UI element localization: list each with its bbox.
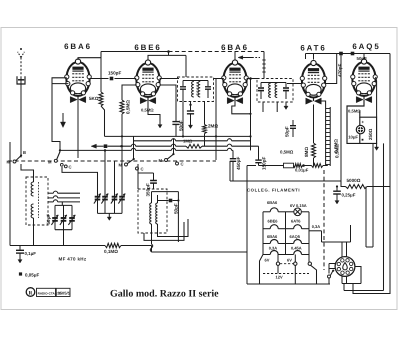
capacitor 0,25uF electrolytic bbox=[336, 187, 338, 191]
wire tube1 aux pin left bbox=[52, 83, 68, 85]
filament 6AT6 bbox=[294, 225, 302, 229]
ground trimmer group 2 bbox=[108, 213, 110, 218]
svg-text:6BA6: 6BA6 bbox=[221, 43, 249, 52]
trimmer 2b bbox=[104, 192, 106, 197]
top line dashed part bbox=[169, 51, 265, 53]
wire tube3 cathode bbox=[232, 101, 251, 114]
wire tube1 grid left bbox=[52, 78, 67, 151]
wires osc coil top bbox=[151, 192, 153, 203]
terminal third bbox=[308, 255, 310, 263]
switch 2 bbox=[54, 159, 57, 162]
oscillator coil box bbox=[138, 189, 167, 233]
wire bottom bus left bbox=[10, 245, 105, 247]
capacitor 50pF tube4 bbox=[292, 120, 294, 125]
flex link bbox=[150, 244, 153, 252]
svg-text:450pF: 450pF bbox=[236, 157, 241, 170]
trimmer 2a bbox=[97, 194, 99, 197]
wire socket top loop bbox=[322, 241, 351, 243]
resistor 5K bbox=[100, 52, 102, 93]
arrow into coil bbox=[60, 122, 65, 128]
svg-text:6BA6: 6BA6 bbox=[267, 200, 278, 205]
antenna coil windings bbox=[31, 182, 33, 196]
svg-text:6AT6: 6AT6 bbox=[300, 44, 326, 53]
wire line T bbox=[105, 135, 251, 137]
speaker and output section bbox=[347, 100, 377, 143]
trimmer group 1 top bar bbox=[55, 204, 72, 206]
svg-text:2MΩ: 2MΩ bbox=[208, 124, 218, 129]
IFT1 windings bbox=[192, 82, 194, 98]
IFT2 riser with ticks bbox=[263, 52, 265, 79]
svg-text:0,1MΩ: 0,1MΩ bbox=[104, 249, 118, 254]
svg-text:6AQ5: 6AQ5 bbox=[352, 42, 380, 51]
tube 6BA6 bbox=[221, 43, 249, 104]
wire down to IFT1 bbox=[185, 55, 187, 77]
svg-text:0,3A: 0,3A bbox=[312, 224, 321, 229]
IF transformer 1 box bbox=[178, 77, 214, 102]
wire coil bottom bbox=[33, 218, 35, 246]
volume potentiometer 0,5M ladder bbox=[325, 107, 327, 166]
filament row wires bbox=[263, 243, 270, 245]
wire tube5 top bbox=[363, 54, 365, 59]
switch 1 antenna bbox=[13, 160, 16, 163]
capacitor 470pF vertical bbox=[325, 54, 337, 84]
capacitor 50pF b bbox=[351, 52, 355, 56]
switch linkage dashed bbox=[8, 160, 216, 162]
wire AF chain bbox=[247, 165, 256, 167]
svg-text:0,25μF: 0,25μF bbox=[342, 193, 356, 198]
svg-text:0,3A: 0,3A bbox=[269, 246, 278, 251]
wire switch2 C to trimmers bbox=[62, 167, 98, 194]
resistor 0,5M osc grid bbox=[122, 85, 137, 100]
dial lamp 6V 0,15A bbox=[294, 208, 302, 216]
capacitor 150pF coupling bbox=[90, 78, 109, 80]
svg-text:470pF: 470pF bbox=[338, 64, 343, 77]
capacitor 450pF bbox=[232, 150, 234, 158]
filament tap row bbox=[270, 251, 278, 255]
wire vertical to switch4 bbox=[173, 139, 175, 155]
wire tube1 cathode down bbox=[77, 100, 79, 159]
socket left stubs bbox=[329, 263, 336, 265]
ground tube2 cathode bbox=[148, 101, 160, 122]
mains switch bbox=[328, 275, 331, 278]
speaker magnet circle bbox=[356, 125, 364, 133]
svg-text:6V: 6V bbox=[265, 258, 270, 263]
tube 6AT6 bbox=[300, 44, 327, 105]
svg-text:M: M bbox=[48, 160, 52, 165]
IFT2 leads down bbox=[262, 102, 264, 112]
wire IFT2 out to tube4 grid bbox=[287, 83, 303, 85]
wire switch3 to osc box bbox=[137, 164, 139, 189]
svg-text:250Ω: 250Ω bbox=[368, 128, 373, 140]
filament 6BA6 b bbox=[270, 240, 278, 244]
wires osc coil bottom bbox=[151, 224, 153, 244]
capacitor 50pF a bbox=[339, 52, 343, 56]
filament row wires bbox=[263, 254, 270, 256]
trimmer group 2 bottom bar bbox=[98, 212, 123, 214]
IFT2 cap right bbox=[285, 83, 287, 88]
ground 0,1uF bbox=[19, 256, 21, 261]
resistor 8M vertical bbox=[313, 105, 315, 144]
svg-text:6BA6: 6BA6 bbox=[267, 234, 278, 239]
capacitor 50pF IF with ground bbox=[190, 101, 192, 111]
IFT1 cap right bbox=[207, 81, 209, 87]
IFT2 windings bbox=[269, 83, 271, 98]
capacitor 50pF osc pad bbox=[169, 199, 173, 203]
wire long AF bottom bbox=[230, 180, 341, 182]
svg-text:50pF: 50pF bbox=[173, 203, 178, 214]
wire coil top bbox=[21, 164, 34, 182]
antenna coil box bbox=[26, 177, 48, 225]
svg-text:3505/S: 3505/S bbox=[58, 291, 71, 296]
resistor zigzag a bbox=[294, 164, 303, 168]
wire junction to switch row bbox=[215, 79, 217, 161]
svg-text:6BA6: 6BA6 bbox=[64, 42, 92, 51]
svg-text:0,5MΩ: 0,5MΩ bbox=[141, 108, 154, 113]
antenna bbox=[20, 48, 22, 50]
capacitor 0,1uF bbox=[19, 246, 21, 250]
speaker inner box left edge bbox=[359, 117, 361, 143]
filament feed wires bbox=[246, 166, 248, 285]
resistor 1M in AVC line bbox=[186, 144, 202, 148]
tube 6BE6 bbox=[134, 43, 161, 104]
ground 0,25uF bbox=[336, 197, 338, 202]
filament 6BE6 bbox=[270, 225, 278, 229]
switch linkage vertical bbox=[323, 170, 325, 270]
wire tube5 side pin down bbox=[376, 77, 377, 117]
svg-text:COLLEG. FILAMENTI: COLLEG. FILAMENTI bbox=[247, 188, 300, 193]
trimmer 1c bbox=[71, 205, 73, 218]
svg-text:6V 0,15A: 6V 0,15A bbox=[290, 203, 307, 208]
IF transformer 2 box bbox=[257, 79, 293, 103]
wire bottom bus right bbox=[152, 251, 248, 253]
ground IFT2 bbox=[285, 103, 287, 108]
svg-text:5000Ω: 5000Ω bbox=[347, 178, 361, 183]
oscillator windings bbox=[150, 203, 152, 224]
wire vertical to switch3 bbox=[133, 136, 135, 158]
label 12V bbox=[263, 273, 309, 275]
svg-text:0,5MΩ: 0,5MΩ bbox=[335, 144, 340, 158]
wire IFT1 to tube3 bbox=[214, 78, 224, 80]
svg-text:C: C bbox=[181, 162, 184, 167]
svg-text:150pF: 150pF bbox=[262, 157, 267, 170]
filament row wires bbox=[263, 211, 270, 213]
IFT1 leads down bbox=[182, 98, 184, 136]
svg-text:50pF: 50pF bbox=[46, 214, 51, 225]
svg-text:MF 470 kHz: MF 470 kHz bbox=[59, 257, 87, 262]
wire junction down bbox=[250, 79, 252, 151]
logo badge bbox=[26, 288, 35, 297]
capacitor 0,05uF bbox=[19, 272, 22, 275]
trimmer group 1 bottom bar bbox=[55, 229, 72, 231]
svg-text:C: C bbox=[141, 167, 144, 172]
svg-text:6V: 6V bbox=[287, 258, 292, 263]
trimmer 2d bbox=[121, 192, 123, 197]
switch 4 bbox=[165, 159, 168, 162]
resistor 0,1M bbox=[105, 243, 121, 247]
wire right rail inner bbox=[383, 143, 385, 290]
svg-text:50pF: 50pF bbox=[285, 126, 290, 137]
wire speaker leads bbox=[372, 143, 374, 247]
svg-text:10μF: 10μF bbox=[348, 134, 358, 139]
vibrator socket bbox=[335, 257, 355, 277]
svg-text:150pF: 150pF bbox=[108, 71, 121, 76]
top line solid part bbox=[101, 51, 169, 53]
tube 6BA6 bbox=[64, 42, 92, 103]
wire tube1 top to top line bbox=[78, 52, 101, 61]
svg-text:+: + bbox=[362, 120, 365, 125]
wire tube3 plate to IFT2 bbox=[247, 78, 257, 80]
svg-text:0,05μF: 0,05μF bbox=[25, 273, 40, 278]
AVC line with arrow bbox=[91, 144, 96, 148]
svg-text:0,01μF: 0,01μF bbox=[295, 168, 309, 173]
svg-text:M: M bbox=[159, 158, 163, 163]
svg-text:R: R bbox=[29, 290, 33, 296]
svg-text:50pF: 50pF bbox=[357, 56, 368, 61]
filament row wires bbox=[263, 228, 270, 230]
wire coupling cap down bbox=[340, 55, 342, 181]
trimmer 2c bbox=[114, 192, 116, 197]
wire left rail bbox=[9, 142, 11, 246]
wire line W bbox=[60, 149, 131, 151]
svg-text:B: B bbox=[23, 150, 26, 155]
svg-text:6BE6: 6BE6 bbox=[268, 219, 279, 224]
svg-text:0,5MΩ: 0,5MΩ bbox=[280, 150, 294, 155]
filament rails bbox=[262, 212, 264, 255]
capacitor 50pF osc bbox=[160, 85, 176, 121]
svg-text:6AQ5: 6AQ5 bbox=[290, 234, 301, 239]
svg-text:8MΩ: 8MΩ bbox=[304, 147, 309, 157]
svg-text:12V: 12V bbox=[276, 275, 283, 280]
svg-text:6BE6: 6BE6 bbox=[134, 43, 161, 52]
resistor 2M vertical bbox=[204, 101, 206, 125]
svg-text:0,45A: 0,45A bbox=[291, 246, 302, 251]
wire tube2 top link bbox=[148, 55, 186, 60]
coil tap lines bbox=[48, 192, 53, 194]
svg-text:5KΩ: 5KΩ bbox=[89, 96, 99, 101]
svg-text:Gallo mod. Razzo II serie: Gallo mod. Razzo II serie bbox=[110, 289, 219, 300]
resistor zigzag b bbox=[312, 164, 324, 168]
wire right rail outer bbox=[353, 54, 390, 294]
filament 6AQ5 bbox=[294, 240, 302, 244]
svg-text:0,1μF: 0,1μF bbox=[25, 251, 37, 256]
svg-text:0,5MΩ: 0,5MΩ bbox=[126, 100, 131, 114]
IFT1 cap left bbox=[182, 81, 184, 87]
svg-text:350pF: 350pF bbox=[146, 183, 151, 196]
resistor 0,5M rect bbox=[284, 163, 294, 168]
svg-text:6AT6: 6AT6 bbox=[291, 219, 301, 224]
capacitor 350pF padder bbox=[138, 172, 154, 174]
arrow left near tube3 bbox=[242, 57, 252, 59]
switch 3 bbox=[125, 163, 128, 166]
wire tube3 top bbox=[234, 52, 236, 60]
trimmer 1b bbox=[63, 205, 65, 218]
ground speaker bbox=[376, 143, 378, 148]
trimmer group 2 leads up bbox=[104, 150, 106, 192]
wire line U bbox=[134, 140, 172, 142]
capacitor 150pF det bbox=[258, 146, 260, 160]
wire tube2 plate to IFT1 bbox=[160, 78, 179, 80]
trimmer 1a bbox=[54, 205, 56, 218]
IFT2 cap left bbox=[260, 83, 262, 88]
svg-text:1MΩ: 1MΩ bbox=[183, 139, 193, 144]
wire top cap line right bbox=[306, 53, 391, 55]
svg-text:C: C bbox=[69, 165, 72, 170]
filament 6BA6 a bbox=[270, 208, 278, 212]
tube 6AQ5 bbox=[351, 42, 381, 103]
socket bottom wires bbox=[341, 276, 343, 283]
